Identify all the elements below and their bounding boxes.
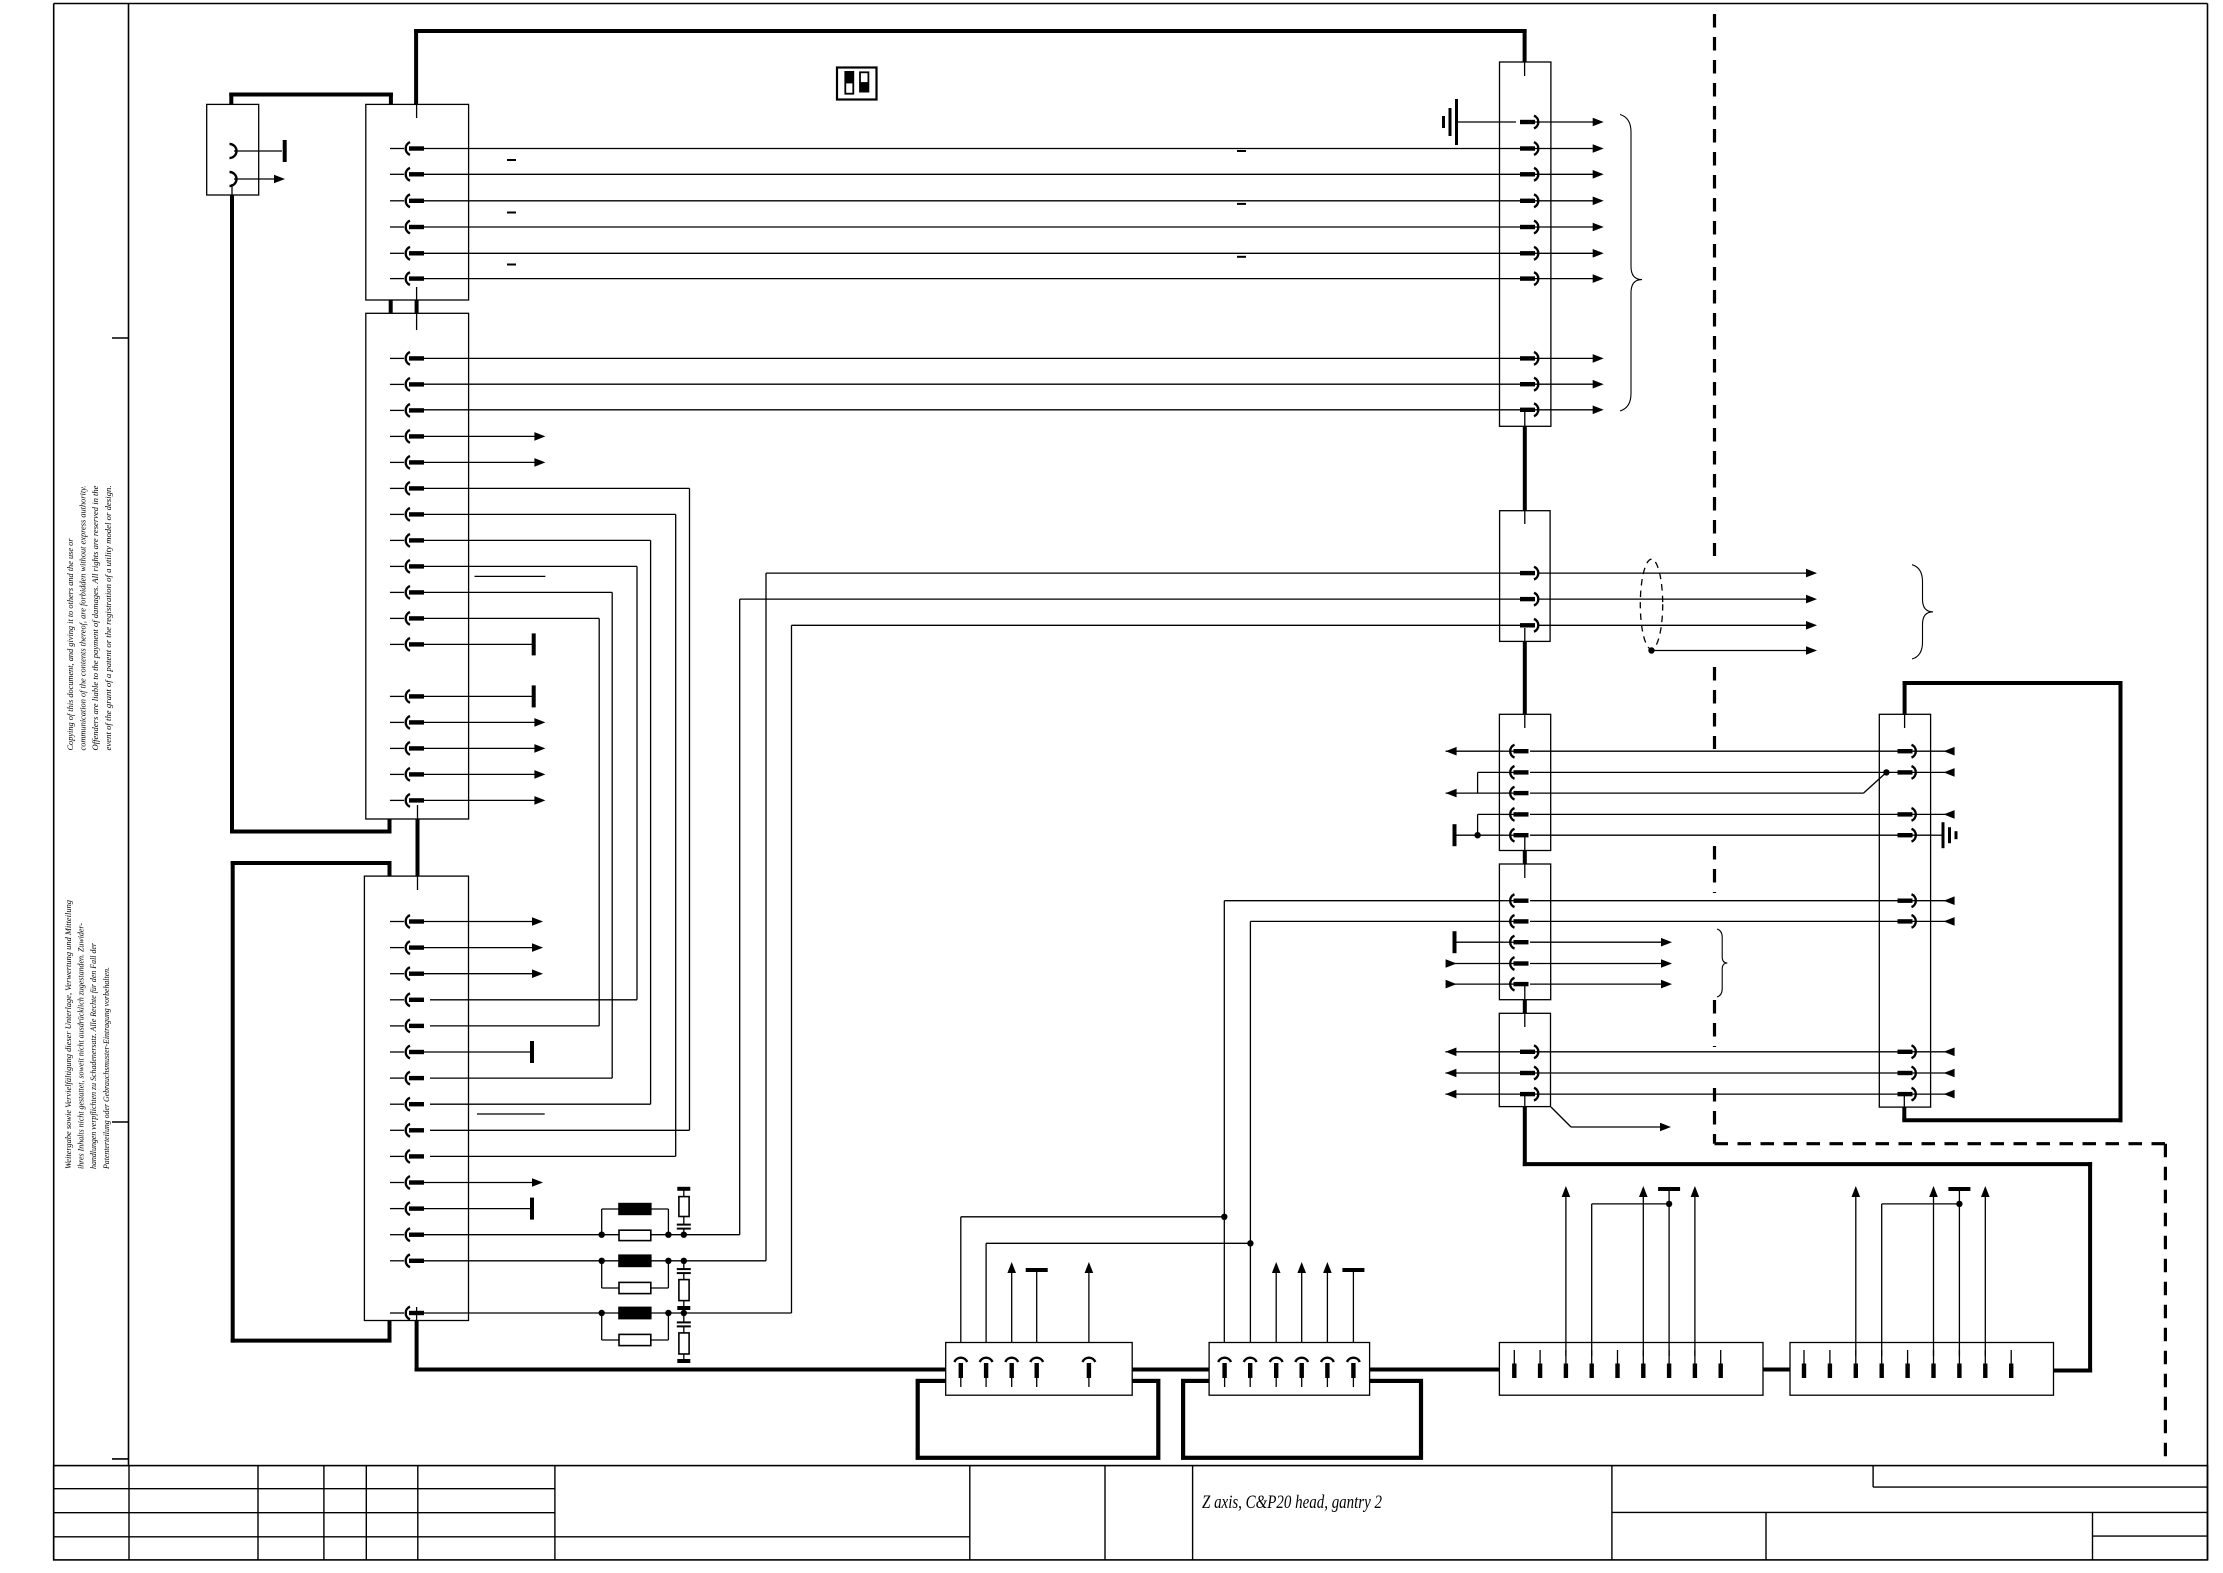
connector X4 box [364,876,468,1320]
X22 pin 3 [1503,787,1529,800]
X3 pin 13 [390,690,424,703]
cable bus top main [414,29,1527,33]
W1 pin 1 [230,144,283,158]
wire X24.2 left [1445,1069,1521,1078]
wire X3.7 to X4 [423,514,676,1156]
X42 pin 7 [1667,1350,1671,1378]
X42 pin 5 [1615,1350,1619,1378]
X3 pin 11 [390,612,424,625]
X4 pin 4 [390,993,424,1006]
X20 pin 1 [1520,116,1551,129]
cable bus D-riser [2054,1369,2093,1373]
wire X24.1 right [1551,1051,1900,1053]
connector X40 box [946,1343,1132,1396]
X4 pin 13 [390,1228,424,1241]
wire X20.3 out [1551,173,1594,175]
wire X43.4 link [1882,1201,1963,1356]
X21 pin 3 [1520,619,1538,632]
title text [1202,1492,1382,1513]
wire label dash e [1237,203,1246,205]
cable bus C-D [1763,1368,1790,1372]
X23 pin 4 [1503,957,1529,970]
brace X23 group [1717,929,1727,997]
wire X3.4 arrow [423,432,545,441]
X43 pin 7 [1957,1350,1961,1378]
X22 pin 4 [1503,808,1529,821]
wire X22.3 left [1446,789,1503,798]
wire X43.7 term [1948,1187,1970,1356]
wire X3.16 arrow [423,770,545,779]
wire label dash b [507,212,516,214]
X3 pin 9 [390,560,424,573]
jog X22.3 to X30.2 [1864,769,1890,793]
X43 pin 5 [1905,1350,1909,1378]
wire X3.11 to X4 [423,618,599,1026]
X4 pin 6 [390,1046,424,1059]
X24 pin 2 [1520,1067,1551,1080]
X3 pin 3 [390,404,424,417]
X40 pin 1 [954,1358,967,1387]
X42 pin 6 [1641,1350,1645,1378]
cable run mid [1523,1162,2092,1166]
X3 pin 14 [390,716,424,729]
X42 pin 1 [1512,1350,1516,1378]
X43 pin 1 [1802,1350,1806,1378]
X3 pin 16 [390,768,424,781]
X3 pin 6 [390,482,424,495]
X2 pin 2 [390,168,424,181]
loop R3 [602,1313,669,1340]
X4 pin 2 [390,941,424,954]
cable stub X23-X24 [1523,1000,1527,1014]
wire X43.6 arrow [1929,1186,1938,1356]
arrow X20.10 [1593,406,1604,415]
X42 pin 8 [1693,1350,1697,1378]
wire row1 to X21 [684,599,1521,1235]
X43 pin 3 [1854,1350,1858,1378]
wire X3.14 arrow [423,718,545,727]
resistor R1a (parallel) [619,1204,651,1215]
wire row2 to X21 [684,573,1521,1261]
wire X22.1 right [1530,750,1899,752]
dashed boundary vertical [1713,14,1716,1144]
fold tick 1 [112,337,129,339]
connector X20 box [1500,62,1551,426]
jumper X22.4-5 [1474,814,1480,838]
fold tick 3 [112,1458,129,1460]
wire X24.2 right [1551,1072,1900,1074]
X20 pin 9 [1520,378,1551,391]
plug W1 box [207,104,259,195]
arrow into X30 at 1094 [1931,1090,1955,1099]
X40 pin 2 [980,1358,993,1387]
X23 pin 5 [1503,978,1529,991]
cable loop right side [1902,681,2122,1122]
wire X20.1 out [1551,121,1594,123]
wire X42.3 arrow [1562,1186,1571,1356]
copyright note DE (rotated) [64,900,111,1170]
cable drop secondary right [389,93,393,105]
X41 pin 5 [1321,1358,1334,1387]
wire X3.15 arrow [423,744,545,753]
arrow into X30 at 900 [1931,896,1955,905]
X41 pin 3 [1270,1358,1283,1387]
wire X42.6 arrow [1639,1186,1648,1356]
cable stub X2-X3 b [415,300,419,313]
wire X22.2 right [1530,771,1899,773]
wire label dash c [507,264,516,266]
connector X2 box [366,104,469,300]
wire X41.5 arrow [1323,1262,1332,1343]
wire X20.4 out [1551,200,1594,202]
cable riser right [2088,1162,2092,1372]
dashed boundary corner run [1715,1144,2166,1465]
wire X20.10 out [1551,409,1594,411]
wire X43.3 arrow [1852,1186,1861,1356]
wire X22.1 left [1446,747,1503,756]
connector X3 box [366,313,469,819]
arrow X20.4 [1593,197,1604,206]
arrow X20.8 [1593,354,1604,363]
cable stub X2-X3 a [389,300,393,313]
X4 pin 9 [390,1124,424,1137]
ground at X20 pin1 [1444,99,1517,145]
arrow W1.2 [274,175,285,184]
X22 pin 2 [1503,766,1529,779]
wire X22.4 right [1530,813,1899,815]
X41 pin 2 [1244,1358,1257,1387]
resistor R3a (series) [602,1307,684,1318]
wire X3.10 to X4 [423,592,612,1078]
arrow into X30 at 751 [1931,747,1955,756]
X3 pin 10 [390,586,424,599]
X30 pin 6 [1898,915,1931,928]
DIP switch S1 [837,68,877,100]
cable housing B2 [1183,1381,1421,1458]
wire X21.1 out [1539,595,1818,604]
jumper X22.2-3 [1477,772,1479,793]
X3 pin 8 [390,534,424,547]
wire X4.13 row [423,1234,602,1236]
wire X22.5 right [1530,834,1899,836]
wire X3.1 to X20.8 [423,357,1521,359]
X4 pin 15 [390,1307,424,1320]
loop R1 [602,1209,669,1235]
svg-text:communication of the contents: communication of the contents thereof, a… [79,486,88,751]
wire X21.2 out [1539,569,1818,578]
brace X20 group [1620,115,1642,412]
X3 pin 1 [390,352,424,365]
X2 pin 5 [390,247,424,260]
cable stub X3-X4 [416,819,420,876]
X40 pin 3 [1005,1358,1018,1387]
stub lines at cable entries [232,62,1905,1334]
wire X41.3 arrow [1272,1262,1281,1343]
svg-text:Patenterteilung oder Gebrauchs: Patenterteilung oder Gebrauchsmuster-Ein… [102,967,111,1170]
wire X4.11 arrow [423,1178,543,1187]
wire X40.3 arrow [1007,1262,1016,1343]
X43 pin 4 [1880,1350,1884,1378]
screen drain wire [1648,646,1817,655]
arrow X20.2 [1593,144,1604,153]
X30 pin 5 [1898,894,1931,907]
X20 pin 5 [1520,221,1551,234]
arrow into X30 at 1073 [1931,1069,1955,1078]
X30 pin 9 [1898,1088,1931,1101]
X4 pin 12 [390,1202,424,1215]
X30 pin 4 [1898,829,1931,842]
X41 pin 4 [1295,1358,1308,1387]
wire X40.2 up [986,1240,1254,1342]
wire X43.8 arrow [1981,1186,1990,1356]
connector X30 box [1879,714,1930,1107]
X4 pin 5 [390,1020,424,1033]
X22 pin 1 [1503,745,1529,758]
connector X42 box [1499,1343,1763,1396]
svg-text:Weitergabe sowie Vervielfältig: Weitergabe sowie Vervielfältigung dieser… [64,900,73,1169]
connector X21 box [1500,511,1551,642]
X41 pin 1 [1218,1358,1231,1387]
cable stub X21-X22 [1523,641,1527,714]
X30 pin 1 [1898,745,1931,758]
wire X3.6 to X4 [423,488,690,1130]
ground at X30 [1931,822,1956,848]
X24 pin 1 [1520,1045,1551,1058]
X20 pin 10 [1520,403,1551,416]
wire X3.3 to X20.10 [423,409,1521,411]
wire label dash f [1237,256,1246,258]
X20 pin 3 [1520,168,1551,181]
wire X20.2 out [1551,148,1594,150]
riser X41.1 to X23.1 [1224,901,1503,1343]
wire X2.5 to X20 [423,252,1521,254]
wire X23.5 [1446,980,1672,989]
connector X23 box [1499,864,1550,1000]
arrow X20.6 [1593,249,1604,258]
X3 pin 7 [390,508,424,521]
wire X4.15 row [423,1312,602,1314]
X3 pin 15 [390,742,424,755]
wire X2.3 to X20 [423,200,1521,202]
svg-text:Z axis, C&P20 head, gantry 2: Z axis, C&P20 head, gantry 2 [1202,1492,1382,1513]
X20 pin 2 [1520,142,1551,155]
X42 pin 4 [1590,1350,1594,1378]
RC chain 1 (R+C to row1) [677,1187,691,1235]
svg-text:event of the grant of a patent: event of the grant of a patent or the re… [104,486,113,751]
X23 pin 2 [1503,915,1529,928]
wire X2.6 to X20 [423,278,1521,280]
arrow into X30 at 772 [1931,768,1955,777]
screen ellipse [1640,559,1662,649]
arrow X20.7 [1593,274,1604,283]
cable drop to plug W1 [229,93,233,105]
wire label dash d [1237,150,1246,152]
X43 pin 2 [1828,1350,1832,1378]
wire X20.7 out [1551,278,1594,280]
wire X24.3 left [1445,1090,1521,1099]
wire X4.12 term [423,1198,534,1220]
wire X3.17 arrow [423,796,545,805]
junction dots row2 [599,1258,688,1264]
wire X23.4 [1446,959,1672,968]
X20 pin 6 [1520,247,1551,260]
X43 pin 8 [1983,1350,1987,1378]
wire X4.6 term [423,1041,534,1063]
wire X42.4 link [1592,1201,1673,1356]
arrow X20.5 [1593,223,1604,232]
wire X42.7 term [1658,1187,1680,1356]
wire X3.2 to X20.9 [423,383,1521,385]
arrow X20.3 [1593,170,1604,179]
resistor R1b (series) [602,1230,684,1240]
cable left vertical W1 [230,195,234,834]
arrow into X30 at 921 [1931,917,1955,926]
X43 pin 9 [2009,1350,2013,1378]
X23 pin 1 [1503,894,1529,907]
X4 pin 14 [390,1254,424,1267]
svg-text:Offenders are liable to the pa: Offenders are liable to the payment of d… [91,485,100,750]
arrow into X30 at 814 [1931,810,1955,819]
cable stub X22-X23 [1523,851,1527,865]
wire X40.4 term [1026,1268,1048,1343]
inner left border line [128,4,130,1466]
junction dots row1 [599,1232,688,1238]
RC chain 2 (row2 to term) [677,1261,691,1310]
wire X2.1 to X20 [423,148,1521,150]
svg-text:handlungen verpflichten zu Sch: handlungen verpflichten zu Schadenersatz… [89,942,98,1169]
X4 pin 1 [390,915,424,928]
X4 pin 8 [390,1098,424,1111]
wire X23.1 right [1530,900,1899,902]
X20 pin 7 [1520,272,1551,285]
screen drain X24 [1551,1107,1671,1131]
X4 pin 3 [390,967,424,980]
copyright note EN (rotated) [66,485,113,750]
wire label dash g [475,575,546,577]
wire X40.5 arrow [1085,1262,1094,1343]
X30 pin 8 [1898,1067,1931,1080]
title block [54,1466,2208,1560]
X20 pin 4 [1520,194,1551,207]
X42 pin 3 [1564,1350,1568,1378]
X24 pin 3 [1520,1088,1551,1101]
cable bus secondary [229,93,393,97]
RC chain 3 (row3 to term) [677,1313,691,1363]
brace X21 group [1912,565,1933,659]
X42 pin 2 [1538,1350,1542,1378]
connector X22 box [1499,714,1550,850]
wire X20.5 out [1551,226,1594,228]
cable bus B-C [1370,1368,1500,1372]
svg-text:Copying of this document, and: Copying of this document, and giving it … [66,538,75,751]
wire X22.5 left [1455,834,1504,836]
wire X4.1 arrow [423,917,543,926]
resistor R2b (parallel) [619,1282,651,1293]
X2 pin 6 [390,272,424,285]
wire X24.3 right [1551,1093,1900,1095]
svg-text:ihres Inhalts nicht gestattet,: ihres Inhalts nicht gestattet, soweit ni… [77,923,86,1169]
X43 pin 6 [1931,1350,1935,1378]
resistor R3b (parallel) [619,1334,651,1345]
wire X42.8 arrow [1691,1186,1700,1356]
wire X20.8 out [1551,357,1594,359]
cable bottom bus left [415,1368,948,1372]
junction dots row3 [599,1310,688,1316]
X42 pin 9 [1719,1350,1723,1378]
X20 pin 8 [1520,352,1551,365]
wire X3.8 to X4 [423,540,651,1104]
X2 pin 3 [390,194,424,207]
connector X43 box [1790,1343,2054,1396]
X4 pin 10 [390,1150,424,1163]
wire X3.5 arrow [423,458,545,467]
wire X22.3 right [1530,792,1864,794]
wire X23.3 [1455,938,1673,947]
X3 pin 2 [390,378,424,391]
cable bus A-B [1132,1368,1209,1372]
wire X4.2 arrow [423,943,543,952]
X40 pin 5 [1083,1358,1096,1387]
cable drop to connector X2 top [414,29,418,104]
wire X23.2 right [1530,920,1899,922]
wire X24.1 left [1445,1048,1521,1057]
terminator X22.5 [1453,824,1457,846]
connector X24 box [1499,1013,1550,1106]
connector X41 box [1209,1343,1370,1396]
riser X41.2 to X23.2 [1250,921,1503,1342]
wire label dash h [477,1113,545,1115]
terminator W1.1 [283,140,287,162]
wire X2.2 to X20 [423,173,1521,175]
X4 pin 7 [390,1072,424,1085]
wire X4.14 row [423,1260,602,1262]
X40 pin 4 [1030,1358,1043,1387]
X3 pin 5 [390,456,424,469]
W1 pin 2 [230,172,275,186]
X30 pin 7 [1898,1045,1931,1058]
wire X41.6 term [1342,1268,1364,1343]
X41 pin 6 [1347,1358,1360,1387]
wire X3.9 to X4 [423,566,637,999]
wire X3.12 term [423,633,536,655]
wire X41.4 arrow [1297,1262,1306,1343]
cable box W2 outline [231,861,392,1343]
wire X22.4 left [1478,813,1503,815]
wire X2.4 to X20 [423,226,1521,228]
cable stub X20-X21 [1523,426,1527,510]
cable drop to connector X20 top [1523,29,1527,62]
X3 pin 12 [390,638,424,651]
loop R2 [602,1261,669,1288]
X21 pin 1 [1520,593,1538,606]
X3 pin 17 [390,794,424,807]
cable stub X4 bottom [415,1321,419,1372]
X30 pin 2 [1898,766,1931,779]
X30 pin 3 [1898,808,1931,821]
wire label dash a [507,159,516,161]
X2 pin 1 [390,142,424,155]
X23 pin 3 [1503,936,1529,949]
cable corner lower [230,819,392,832]
terminator X23.3 [1453,931,1457,953]
X4 pin 11 [390,1176,424,1189]
fold tick 2 [112,1121,129,1123]
arrow X20.1 [1593,118,1604,127]
arrow X20.9 [1593,380,1604,389]
resistor R2a (series) [602,1255,684,1266]
wire X20.9 out [1551,383,1594,385]
X2 pin 4 [390,221,424,234]
